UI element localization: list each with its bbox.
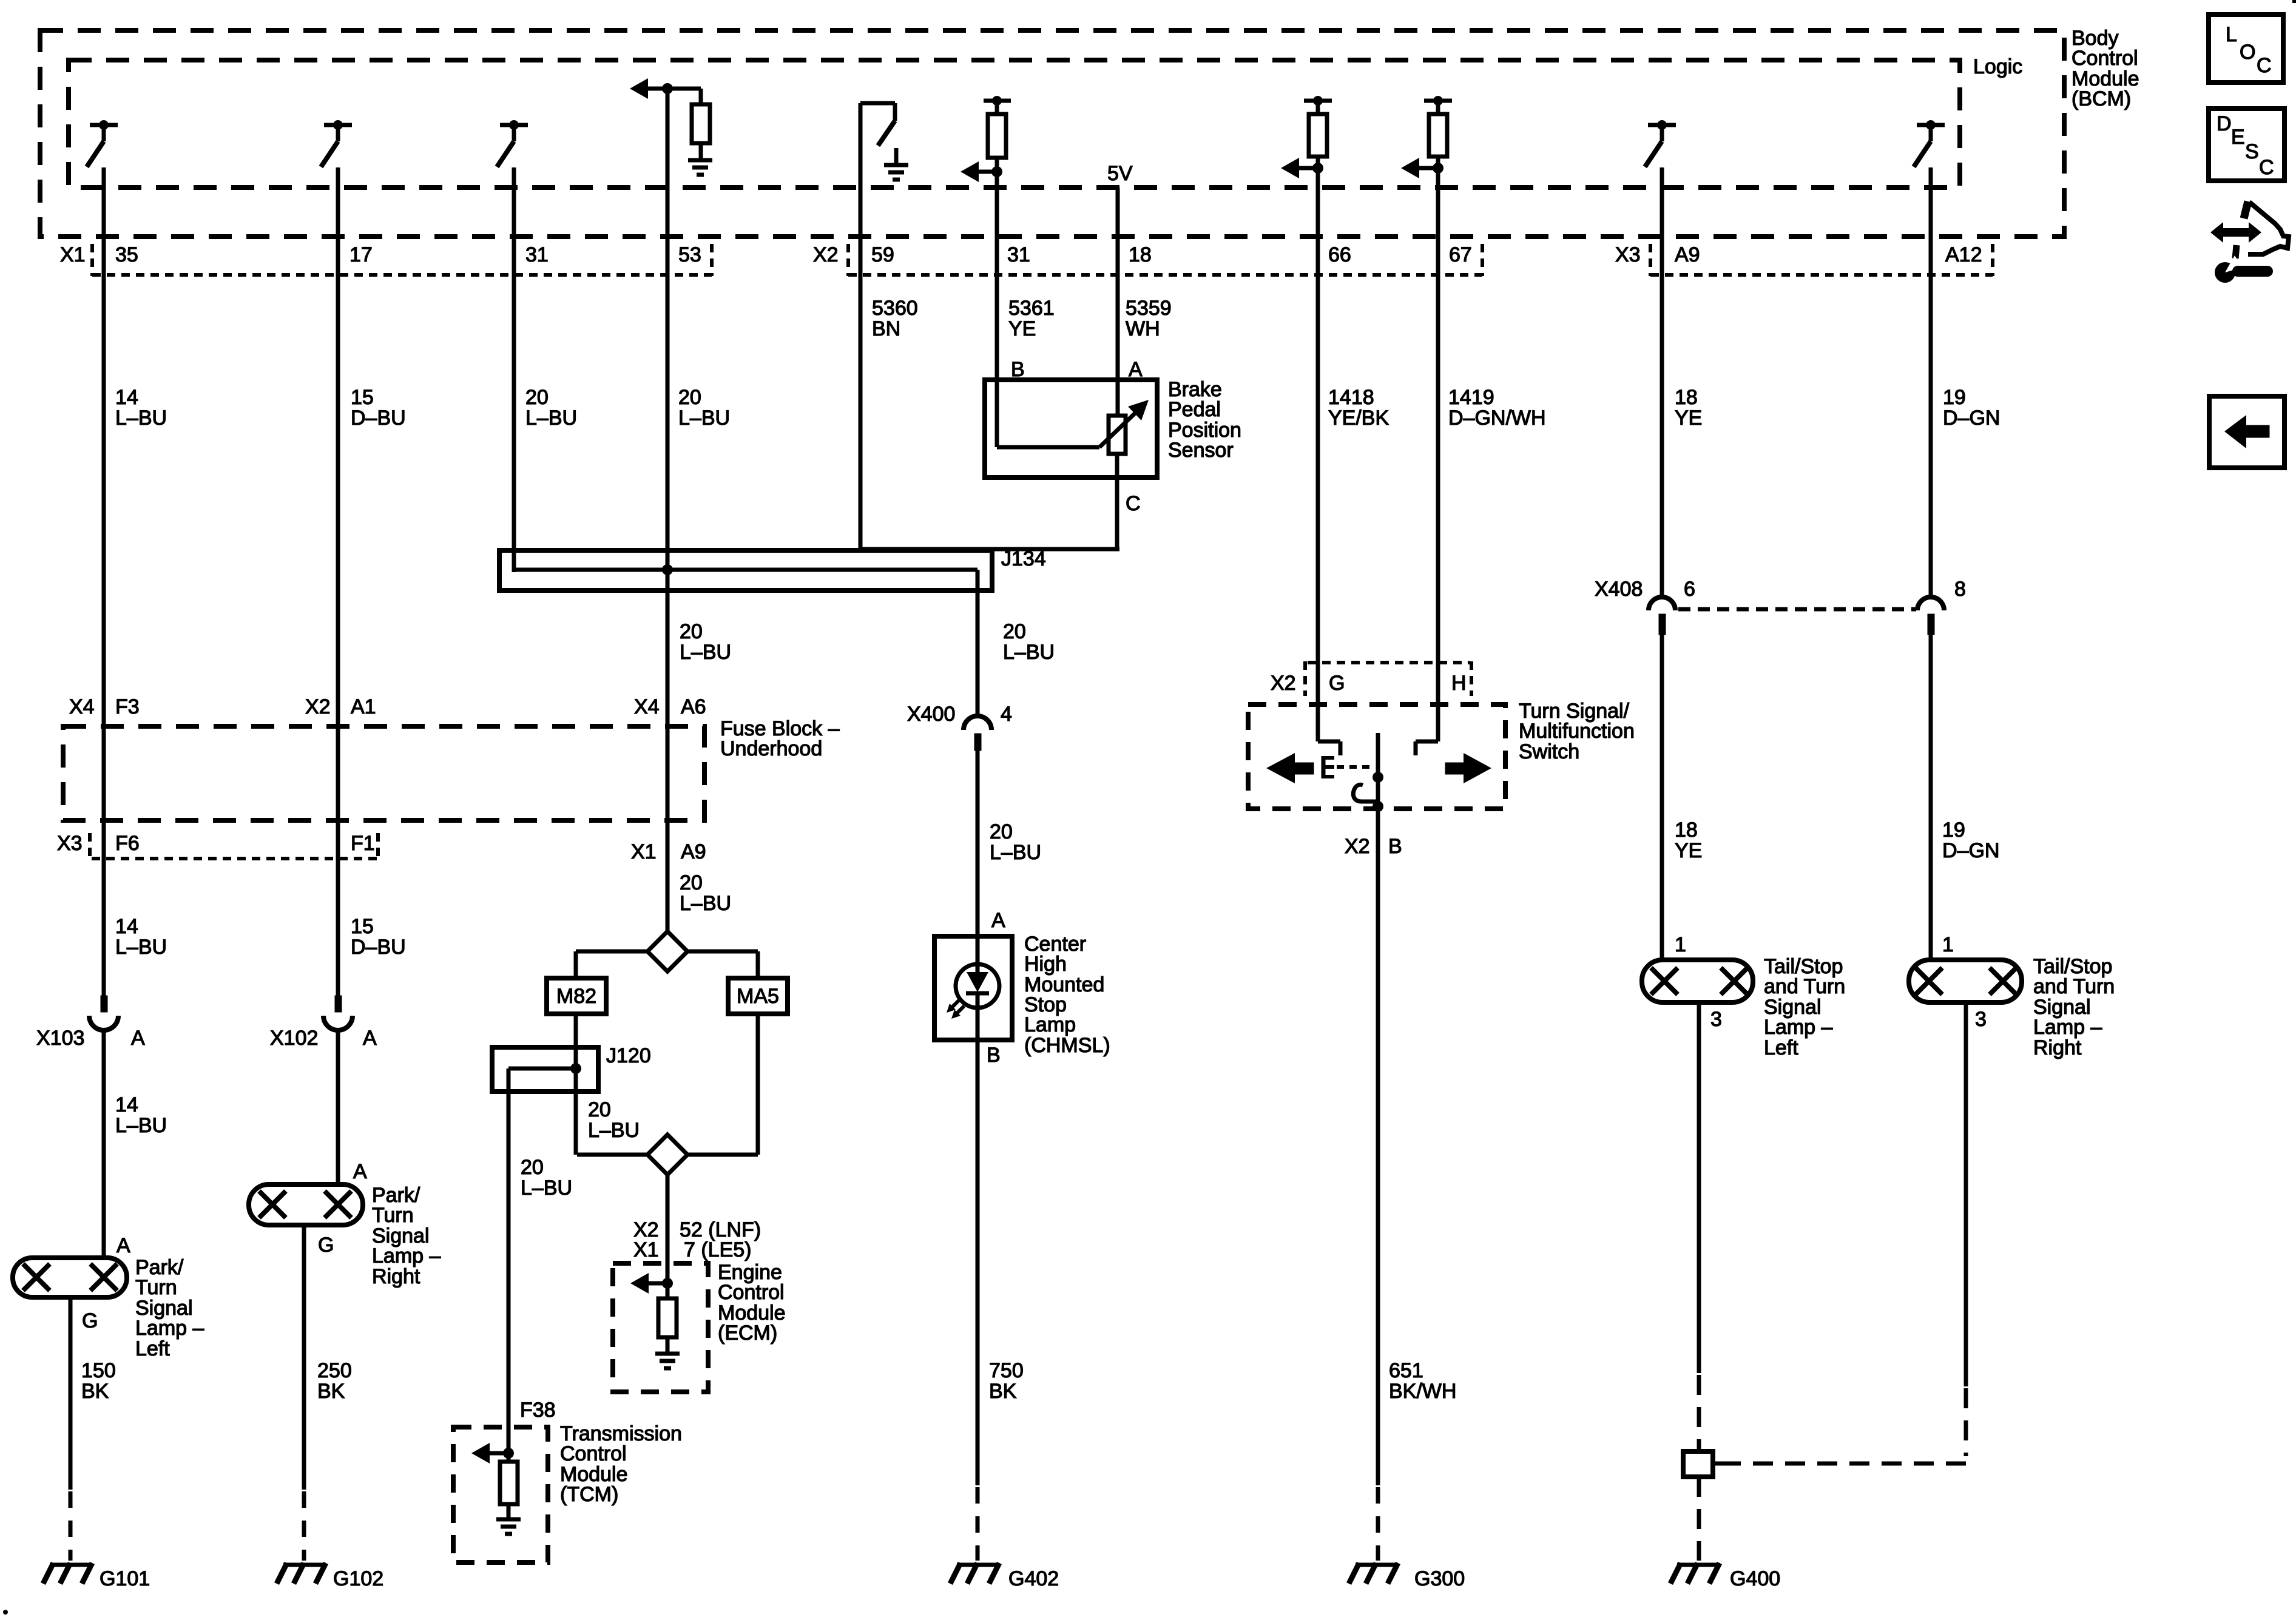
label: 20 L-BU (CHMSL feed) xyxy=(1003,620,1055,664)
label: X400 xyxy=(907,703,955,726)
wire: left tail lamp ground lead xyxy=(1697,1002,1701,1373)
svg-text:20: 20 xyxy=(1003,620,1026,643)
svg-text:YE: YE xyxy=(1675,407,1702,430)
svg-text:F1: F1 xyxy=(351,832,375,855)
label: 5361 YE xyxy=(1008,297,1055,340)
wire: M82 to splice J120 xyxy=(574,1014,578,1068)
label: Fuse Block - Underhood xyxy=(720,717,840,760)
svg-text:1419: 1419 xyxy=(1448,386,1494,409)
lamp: Tail/Stop and Turn Signal Lamp - Right (dual bulbs) xyxy=(1909,960,2022,1002)
svg-text:Left: Left xyxy=(1764,1036,1798,1059)
label: Center High Mounted Stop Lamp (CHMSL) xyxy=(1024,933,1110,1057)
svg-text:WH: WH xyxy=(1126,317,1160,340)
label: pin A of X102 xyxy=(363,1027,377,1050)
wire: circuit 1419 D-GN/WH from BCM pin 67 xyxy=(1436,168,1440,741)
svg-text:Right: Right xyxy=(372,1265,420,1288)
label: pin A of left park lamp xyxy=(116,1234,130,1257)
svg-text:20: 20 xyxy=(678,386,701,409)
label: pin G of right park lamp xyxy=(318,1234,334,1257)
svg-text:3: 3 xyxy=(1710,1008,1722,1031)
icon: left turn arrow xyxy=(1266,753,1314,783)
icon: right turn arrow xyxy=(1445,753,1491,783)
label: Body Control Module (BCM) xyxy=(2071,27,2139,110)
ground G400 (chassis) xyxy=(1670,1563,1720,1584)
svg-text:J120: J120 xyxy=(606,1044,651,1067)
svg-text:L–BU: L–BU xyxy=(521,1176,572,1200)
resistor R6: TCM input load xyxy=(500,1453,518,1504)
label: pin 3 of right tail lamp xyxy=(1975,1008,1987,1031)
label: Brake Pedal Position Sensor xyxy=(1168,378,1241,462)
svg-text:5V: 5V xyxy=(1107,162,1133,185)
label: J120 xyxy=(606,1044,651,1067)
wire: dashed continuation to G102 xyxy=(302,1491,306,1561)
svg-text:20: 20 xyxy=(680,871,703,894)
switch box: Turn Signal/Multifunction Switch, dashed xyxy=(1248,704,1505,809)
potentiometer: sensor element (resistor with wiper arrow) xyxy=(997,400,1149,454)
icon: DESC sidebar box xyxy=(2209,109,2284,181)
svg-text:H: H xyxy=(1451,672,1467,695)
svg-text:X2: X2 xyxy=(305,695,331,718)
wire: dashed splice box to G400 xyxy=(1697,1477,1701,1561)
label: connector X4 pin A6 xyxy=(634,695,706,718)
wire: circuit 1418 YE/BK from BCM pin 66 xyxy=(1316,168,1320,741)
splice diamond (upper) on circuit 20 L-BU xyxy=(647,931,687,971)
svg-text:G: G xyxy=(82,1309,98,1332)
node: pin-66 sense junction with arrow xyxy=(1281,157,1323,178)
svg-text:X2: X2 xyxy=(813,243,839,266)
svg-text:G402: G402 xyxy=(1008,1567,1059,1590)
mark: page footer dot xyxy=(3,1610,8,1615)
svg-text:D–GN: D–GN xyxy=(1942,839,1999,862)
module box: Engine Control Module (ECM), dashed xyxy=(613,1263,708,1392)
svg-text:D–GN: D–GN xyxy=(1943,407,2000,430)
svg-text:F6: F6 xyxy=(115,832,140,855)
node: common junction at box edge xyxy=(1373,801,1383,812)
module box: BCM Logic section, dashed outline xyxy=(69,60,1960,187)
label: 20 L-BU (J120 branch) xyxy=(588,1098,640,1142)
wire: 18 YE from X408 to left tail lamp xyxy=(1660,635,1664,960)
wire: sensor pin C return xyxy=(1115,454,1119,549)
wire: circuit 150 BK ground lead xyxy=(69,1297,73,1490)
svg-text:A9: A9 xyxy=(1675,243,1700,266)
wire: circuit 18 YE from BCM pin A9 xyxy=(1660,167,1664,596)
resistor R2: BCM pull-up on pin 31 xyxy=(984,96,1011,158)
wire: circuit 19 D-GN from BCM pin A12 xyxy=(1929,167,1933,596)
wire: dashed right ground lead xyxy=(1964,1388,1968,1456)
wire: MA5 to lower splice xyxy=(756,1014,760,1155)
label: 20 L-BU (J134 to fuse block) xyxy=(680,620,731,664)
svg-text:Lamp –: Lamp – xyxy=(372,1244,441,1268)
svg-text:BK/WH: BK/WH xyxy=(1389,1380,1456,1403)
svg-text:L–BU: L–BU xyxy=(115,407,167,430)
svg-text:L–BU: L–BU xyxy=(115,936,167,959)
lamp: Tail/Stop and Turn Signal Lamp - Left (dual bulbs) xyxy=(1642,960,1753,1002)
svg-text:X4: X4 xyxy=(634,695,660,718)
svg-text:M82: M82 xyxy=(556,985,596,1008)
label: G102 xyxy=(333,1567,383,1590)
svg-text:C: C xyxy=(2259,156,2274,179)
label: pin 6 of X408 xyxy=(1684,578,1695,601)
label: 5360 BN xyxy=(872,297,918,340)
icon: harness repair (double arrow, connector, wrench) xyxy=(2210,201,2289,283)
lever: turn signal stalk (E contact) xyxy=(1323,756,1373,778)
svg-text:(CHMSL): (CHMSL) xyxy=(1024,1034,1110,1057)
svg-text:X1: X1 xyxy=(60,243,86,266)
connector X1 row (dotted band with pin numbers) xyxy=(60,243,712,276)
switch Q3: BCM driver for pin 31 xyxy=(497,120,528,167)
svg-text:BK: BK xyxy=(989,1380,1017,1403)
wire: circuit 14 L-BU from BCM pin 35 xyxy=(102,167,106,996)
contact: movable wiper hook xyxy=(1353,785,1378,802)
svg-text:X1: X1 xyxy=(633,1238,659,1261)
wire: 14 L-BU from X103 to lamp xyxy=(102,1031,106,1258)
svg-text:X3: X3 xyxy=(1615,243,1641,266)
svg-text:1: 1 xyxy=(1942,933,1954,956)
svg-text:750: 750 xyxy=(989,1359,1024,1382)
label: 19 D-GN xyxy=(1943,386,2000,430)
svg-text:18: 18 xyxy=(1675,386,1698,409)
label: Tail/Stop and Turn Signal Lamp - Left xyxy=(1764,955,1845,1059)
resistor R3: BCM pull-up on pin 66 xyxy=(1304,96,1332,157)
svg-text:X2: X2 xyxy=(1271,672,1296,695)
svg-text:YE: YE xyxy=(1675,839,1702,862)
svg-text:15: 15 xyxy=(351,386,374,409)
mark: page corner tick xyxy=(2292,0,2296,3)
label: X102 xyxy=(270,1027,318,1050)
label: G400 xyxy=(1730,1567,1780,1590)
svg-text:Left: Left xyxy=(135,1337,170,1360)
svg-text:A: A xyxy=(353,1160,367,1183)
svg-text:Multifunction: Multifunction xyxy=(1519,720,1635,743)
svg-text:G: G xyxy=(1329,672,1345,695)
label: 18 YE (below X408) xyxy=(1675,819,1702,862)
fuse block - underhood box (dashed) xyxy=(63,726,704,820)
node: common junction (upper) xyxy=(1373,772,1383,783)
switch Q2: BCM driver for pin 17 xyxy=(321,120,352,167)
dotted line: fuse block bottom connector row xyxy=(92,857,379,860)
switch Q5: BCM driver for pin A12 xyxy=(1914,120,1945,167)
svg-text:59: 59 xyxy=(871,243,894,266)
svg-text:X4: X4 xyxy=(69,695,95,718)
svg-text:X3: X3 xyxy=(57,832,83,855)
label: connector X4 pin F3 (top of fuse block) xyxy=(69,695,140,718)
svg-text:19: 19 xyxy=(1942,819,1965,842)
label: F38 xyxy=(520,1399,556,1422)
svg-text:X2: X2 xyxy=(1345,835,1370,858)
label: G101 xyxy=(100,1567,150,1590)
svg-text:7 (LE5): 7 (LE5) xyxy=(684,1238,752,1261)
wire: 19 D-GN from X408 to right tail lamp xyxy=(1929,635,1933,960)
svg-text:F38: F38 xyxy=(520,1399,556,1422)
svg-text:G: G xyxy=(318,1234,334,1257)
label: pin F1 xyxy=(351,832,378,859)
wire: dashed tie to splice box xyxy=(1724,1462,1966,1466)
wire: circuit 5360 BN from BCM pin 59 xyxy=(859,103,863,549)
svg-text:D–BU: D–BU xyxy=(351,936,406,959)
wire: circuit 250 BK ground lead xyxy=(302,1225,306,1490)
label: 15 D-BU (below fuse block) xyxy=(351,915,406,959)
wire: circuit 5359 WH (5V) from BCM pin 18 xyxy=(1116,187,1120,416)
icon: back-arrow sidebar box xyxy=(2209,396,2284,468)
svg-text:53: 53 xyxy=(678,243,701,266)
svg-text:L–BU: L–BU xyxy=(678,407,730,430)
label: Tail/Stop and Turn Signal Lamp - Right xyxy=(2033,955,2115,1059)
wire: 20 L-BU from J120 to lower splice xyxy=(574,1068,578,1155)
svg-text:66: 66 xyxy=(1328,243,1351,266)
svg-text:20: 20 xyxy=(588,1098,611,1121)
label: pin 3 of left tail lamp xyxy=(1710,1008,1722,1031)
wire: dashed continuation to G300 xyxy=(1376,1487,1380,1561)
LED D1: CHMSL element xyxy=(947,936,999,1040)
svg-text:20: 20 xyxy=(990,820,1013,843)
wire: circuit 20 L-BU from BCM pin 53 xyxy=(666,89,670,934)
svg-text:Control: Control xyxy=(2071,47,2138,70)
wire: branch to M82 xyxy=(576,951,647,978)
wire: right tail lamp ground lead xyxy=(1964,1002,1968,1386)
svg-text:15: 15 xyxy=(351,915,374,938)
label: pin C of sensor xyxy=(1126,492,1141,515)
wire: circuit 5361 YE from BCM pin 31 xyxy=(995,172,999,447)
wire: 20 L-BU to ECM xyxy=(666,1175,670,1263)
label: connector X3 pin F6 (bottom of fuse block) xyxy=(57,832,140,859)
label: pin A of sensor xyxy=(1129,358,1143,381)
wire: switch common B leg xyxy=(1376,733,1380,809)
svg-text:31: 31 xyxy=(1007,243,1030,266)
module box: Transmission Control Module (TCM), dashed xyxy=(453,1427,548,1562)
wire: circuit 750 BK ground lead xyxy=(976,1040,980,1485)
svg-text:G101: G101 xyxy=(100,1567,150,1590)
svg-text:MA5: MA5 xyxy=(737,985,779,1008)
svg-text:C: C xyxy=(1126,492,1141,515)
label: 20 L-BU (pin 31 wire) xyxy=(525,386,577,430)
wire: dashed continuation to G101 xyxy=(69,1491,73,1561)
svg-text:(TCM): (TCM) xyxy=(560,1483,618,1506)
svg-text:A: A xyxy=(116,1234,130,1257)
wire: 5360 BN return path (bottom run) xyxy=(860,547,1119,552)
label: pin B of CHMSL xyxy=(987,1044,1001,1067)
svg-text:C: C xyxy=(2257,54,2272,77)
svg-text:B: B xyxy=(987,1044,1001,1067)
label: 20 L-BU (pin 53 wire) xyxy=(678,386,730,430)
label: pin A of X103 xyxy=(131,1027,145,1050)
label: 750 BK xyxy=(989,1359,1024,1403)
label: Engine Control Module (ECM) xyxy=(718,1261,786,1345)
label: connector X2 pin A1 xyxy=(305,695,376,718)
connector X400 pin 4 (in-line) xyxy=(964,716,991,751)
label: ECM pins X2 52 (LNF) / X1 7 (LE5) xyxy=(633,1218,761,1261)
svg-text:F3: F3 xyxy=(115,695,140,718)
splice J120 (bus bar) xyxy=(492,1047,598,1092)
svg-text:X102: X102 xyxy=(270,1027,318,1050)
svg-text:D–GN/WH: D–GN/WH xyxy=(1448,407,1546,430)
svg-text:8: 8 xyxy=(1954,578,1966,601)
svg-text:L–BU: L–BU xyxy=(115,1114,167,1137)
svg-text:L–BU: L–BU xyxy=(525,407,577,430)
label: 5359 WH xyxy=(1126,297,1172,340)
svg-text:B: B xyxy=(1388,835,1402,858)
label: X103 xyxy=(36,1027,84,1050)
label: 1418 YE/BK xyxy=(1328,386,1389,430)
switch Q4: BCM driver for pin A9 xyxy=(1645,120,1676,167)
svg-text:Pedal: Pedal xyxy=(1168,398,1221,421)
svg-text:S: S xyxy=(2245,140,2259,163)
svg-text:14: 14 xyxy=(115,915,138,938)
svg-text:X400: X400 xyxy=(907,703,955,726)
label: 18 YE xyxy=(1675,386,1702,430)
svg-text:and Turn: and Turn xyxy=(2033,975,2115,998)
svg-text:E: E xyxy=(2231,126,2245,149)
label: G402 xyxy=(1008,1567,1059,1590)
svg-text:X1: X1 xyxy=(631,840,657,863)
connector X408 pin 8 (in-line) xyxy=(1917,597,1944,635)
svg-text:Turn: Turn xyxy=(372,1204,414,1227)
svg-text:Lamp –: Lamp – xyxy=(2033,1016,2102,1039)
label: 1419 D-GN/WH xyxy=(1448,386,1546,430)
wire: circuit 651 BK/WH to ground xyxy=(1376,809,1380,1485)
splice J134 (bus bar) xyxy=(499,550,992,590)
svg-text:Logic: Logic xyxy=(1973,55,2022,78)
svg-text:14: 14 xyxy=(115,386,138,409)
svg-text:and Turn: and Turn xyxy=(1764,975,1845,998)
node: pin-67 sense junction with arrow xyxy=(1401,157,1443,178)
svg-text:14: 14 xyxy=(115,1093,138,1116)
wire: 20 L-BU from X400 to CHMSL xyxy=(976,751,980,936)
svg-text:18: 18 xyxy=(1675,819,1698,842)
label: 20 L-BU (below X400) xyxy=(990,820,1041,864)
svg-text:20: 20 xyxy=(525,386,549,409)
svg-text:35: 35 xyxy=(115,243,138,266)
svg-text:17: 17 xyxy=(349,243,373,266)
label: pin A of CHMSL xyxy=(991,909,1005,932)
label: 15 D-BU xyxy=(351,386,406,430)
label: G300 xyxy=(1414,1567,1465,1590)
splice diamond (lower) on circuit 20 L-BU xyxy=(577,1135,758,1175)
label: 20 L-BU (fuse block to splice) xyxy=(680,871,731,915)
svg-text:D: D xyxy=(2217,112,2232,135)
svg-text:A: A xyxy=(363,1027,377,1050)
svg-text:20: 20 xyxy=(680,620,703,643)
svg-text:4: 4 xyxy=(1001,703,1012,726)
wire: circuit 20 L-BU from BCM pin 31 to J134 xyxy=(512,167,516,572)
svg-text:A: A xyxy=(131,1027,145,1050)
svg-text:19: 19 xyxy=(1943,386,1966,409)
svg-text:31: 31 xyxy=(525,243,549,266)
connector M82 xyxy=(547,978,606,1014)
ground: ECM internal ground xyxy=(655,1337,680,1368)
lamp: Park/Turn Signal Lamp - Left (dual bulbs) xyxy=(13,1258,127,1297)
ground G101 (chassis) xyxy=(43,1563,92,1584)
svg-text:D–BU: D–BU xyxy=(351,407,406,430)
svg-text:X408: X408 xyxy=(1595,578,1643,601)
svg-text:Lamp –: Lamp – xyxy=(1764,1016,1832,1039)
contact: left-turn contact G with step xyxy=(1318,741,1340,755)
label: pin A of right park lamp xyxy=(353,1160,367,1183)
svg-text:Right: Right xyxy=(2033,1036,2082,1059)
svg-text:A1: A1 xyxy=(351,695,376,718)
svg-text:L–BU: L–BU xyxy=(588,1119,640,1142)
connector X2 row at multifunction switch xyxy=(1271,661,1471,696)
label: X408 xyxy=(1595,578,1643,601)
label: Turn Signal/Multifunction Switch xyxy=(1519,700,1635,763)
svg-text:Sensor: Sensor xyxy=(1168,439,1234,462)
svg-text:150: 150 xyxy=(81,1359,116,1382)
wire: circuit 15 D-BU from BCM pin 17 xyxy=(336,167,340,996)
label: 14 L-BU (to lamp) xyxy=(115,1093,167,1137)
resistor R4: BCM pull-up on pin 67 xyxy=(1424,96,1452,157)
svg-text:(BCM): (BCM) xyxy=(2071,87,2131,110)
label: Park/Turn Signal Lamp - Left xyxy=(135,1256,204,1360)
node: ECM input junction with arrow xyxy=(630,1263,673,1298)
label: J134 xyxy=(1001,547,1046,570)
label: pin B of sensor xyxy=(1011,358,1025,381)
connector X3 row (dotted band with pin numbers) xyxy=(1615,243,1993,276)
svg-text:Switch: Switch xyxy=(1519,740,1579,763)
svg-text:67: 67 xyxy=(1449,243,1472,266)
svg-text:Lamp: Lamp xyxy=(1024,1013,1076,1036)
label: pin 4 of X400 xyxy=(1001,703,1012,726)
ground G402 (chassis) xyxy=(950,1563,999,1584)
wire: 20 L-BU from J120 to TCM xyxy=(507,1068,511,1453)
connector X408 pin 6 (in-line) xyxy=(1649,597,1675,635)
label: pin G of left park lamp xyxy=(82,1309,98,1332)
svg-text:G400: G400 xyxy=(1730,1567,1780,1590)
ground G300 (chassis) xyxy=(1349,1563,1398,1584)
svg-text:L–BU: L–BU xyxy=(680,892,731,915)
contact: right-turn contact H with step xyxy=(1416,741,1438,755)
wire: dashed ground lead to splice box xyxy=(1697,1375,1701,1451)
svg-text:6: 6 xyxy=(1684,578,1695,601)
connector X102 pin A (in-line) xyxy=(323,996,353,1030)
label: pin 1 of left tail lamp xyxy=(1675,933,1686,956)
svg-text:5360: 5360 xyxy=(872,297,918,320)
svg-text:651: 651 xyxy=(1389,1359,1423,1382)
label: Transmission Control Module (TCM) xyxy=(560,1422,682,1506)
label: pin 8 of X408 xyxy=(1954,578,1966,601)
resistor R1: BCM pull-down on pin 53 xyxy=(692,89,710,143)
svg-text:BK: BK xyxy=(81,1380,109,1403)
svg-text:O: O xyxy=(2240,41,2255,64)
connector MA5 xyxy=(728,978,788,1014)
switch S1: BCM input switch to ground (pin 59) xyxy=(860,103,895,146)
label: 19 D-GN (below X408) xyxy=(1942,819,1999,862)
svg-text:A12: A12 xyxy=(1945,243,1982,266)
lamp box: Center High Mounted Stop Lamp (CHMSL) xyxy=(934,936,1012,1040)
svg-text:L–BU: L–BU xyxy=(1003,641,1055,664)
switch Q1: BCM low-side driver for pin 35 xyxy=(87,120,118,167)
label: pin 1 of right tail lamp xyxy=(1942,933,1954,956)
ground G102 (chassis) xyxy=(277,1563,326,1584)
svg-text:YE: YE xyxy=(1008,317,1036,340)
node: pin-31 sense junction with arrow xyxy=(961,158,1002,182)
dashed tie line of connector X408 xyxy=(1678,607,1916,612)
label: 651 BK/WH xyxy=(1389,1359,1456,1403)
svg-text:A: A xyxy=(991,909,1005,932)
svg-text:G300: G300 xyxy=(1414,1567,1465,1590)
label: 20 L-BU (TCM feed) xyxy=(521,1156,572,1200)
wire: 15 D-BU from X102 to lamp xyxy=(336,1031,340,1184)
sensor box: Brake Pedal Position Sensor xyxy=(985,380,1157,478)
svg-text:20: 20 xyxy=(521,1156,544,1179)
svg-text:5359: 5359 xyxy=(1126,297,1172,320)
svg-text:BN: BN xyxy=(872,317,900,340)
svg-text:A6: A6 xyxy=(681,695,706,718)
svg-text:1: 1 xyxy=(1675,933,1686,956)
svg-text:BK: BK xyxy=(317,1380,345,1403)
lamp: Park/Turn Signal Lamp - Right (dual bulbs) xyxy=(249,1184,363,1225)
svg-text:L–BU: L–BU xyxy=(680,641,731,664)
icon: LOC sidebar box xyxy=(2209,15,2283,83)
wire: dashed continuation to G402 xyxy=(976,1487,980,1561)
